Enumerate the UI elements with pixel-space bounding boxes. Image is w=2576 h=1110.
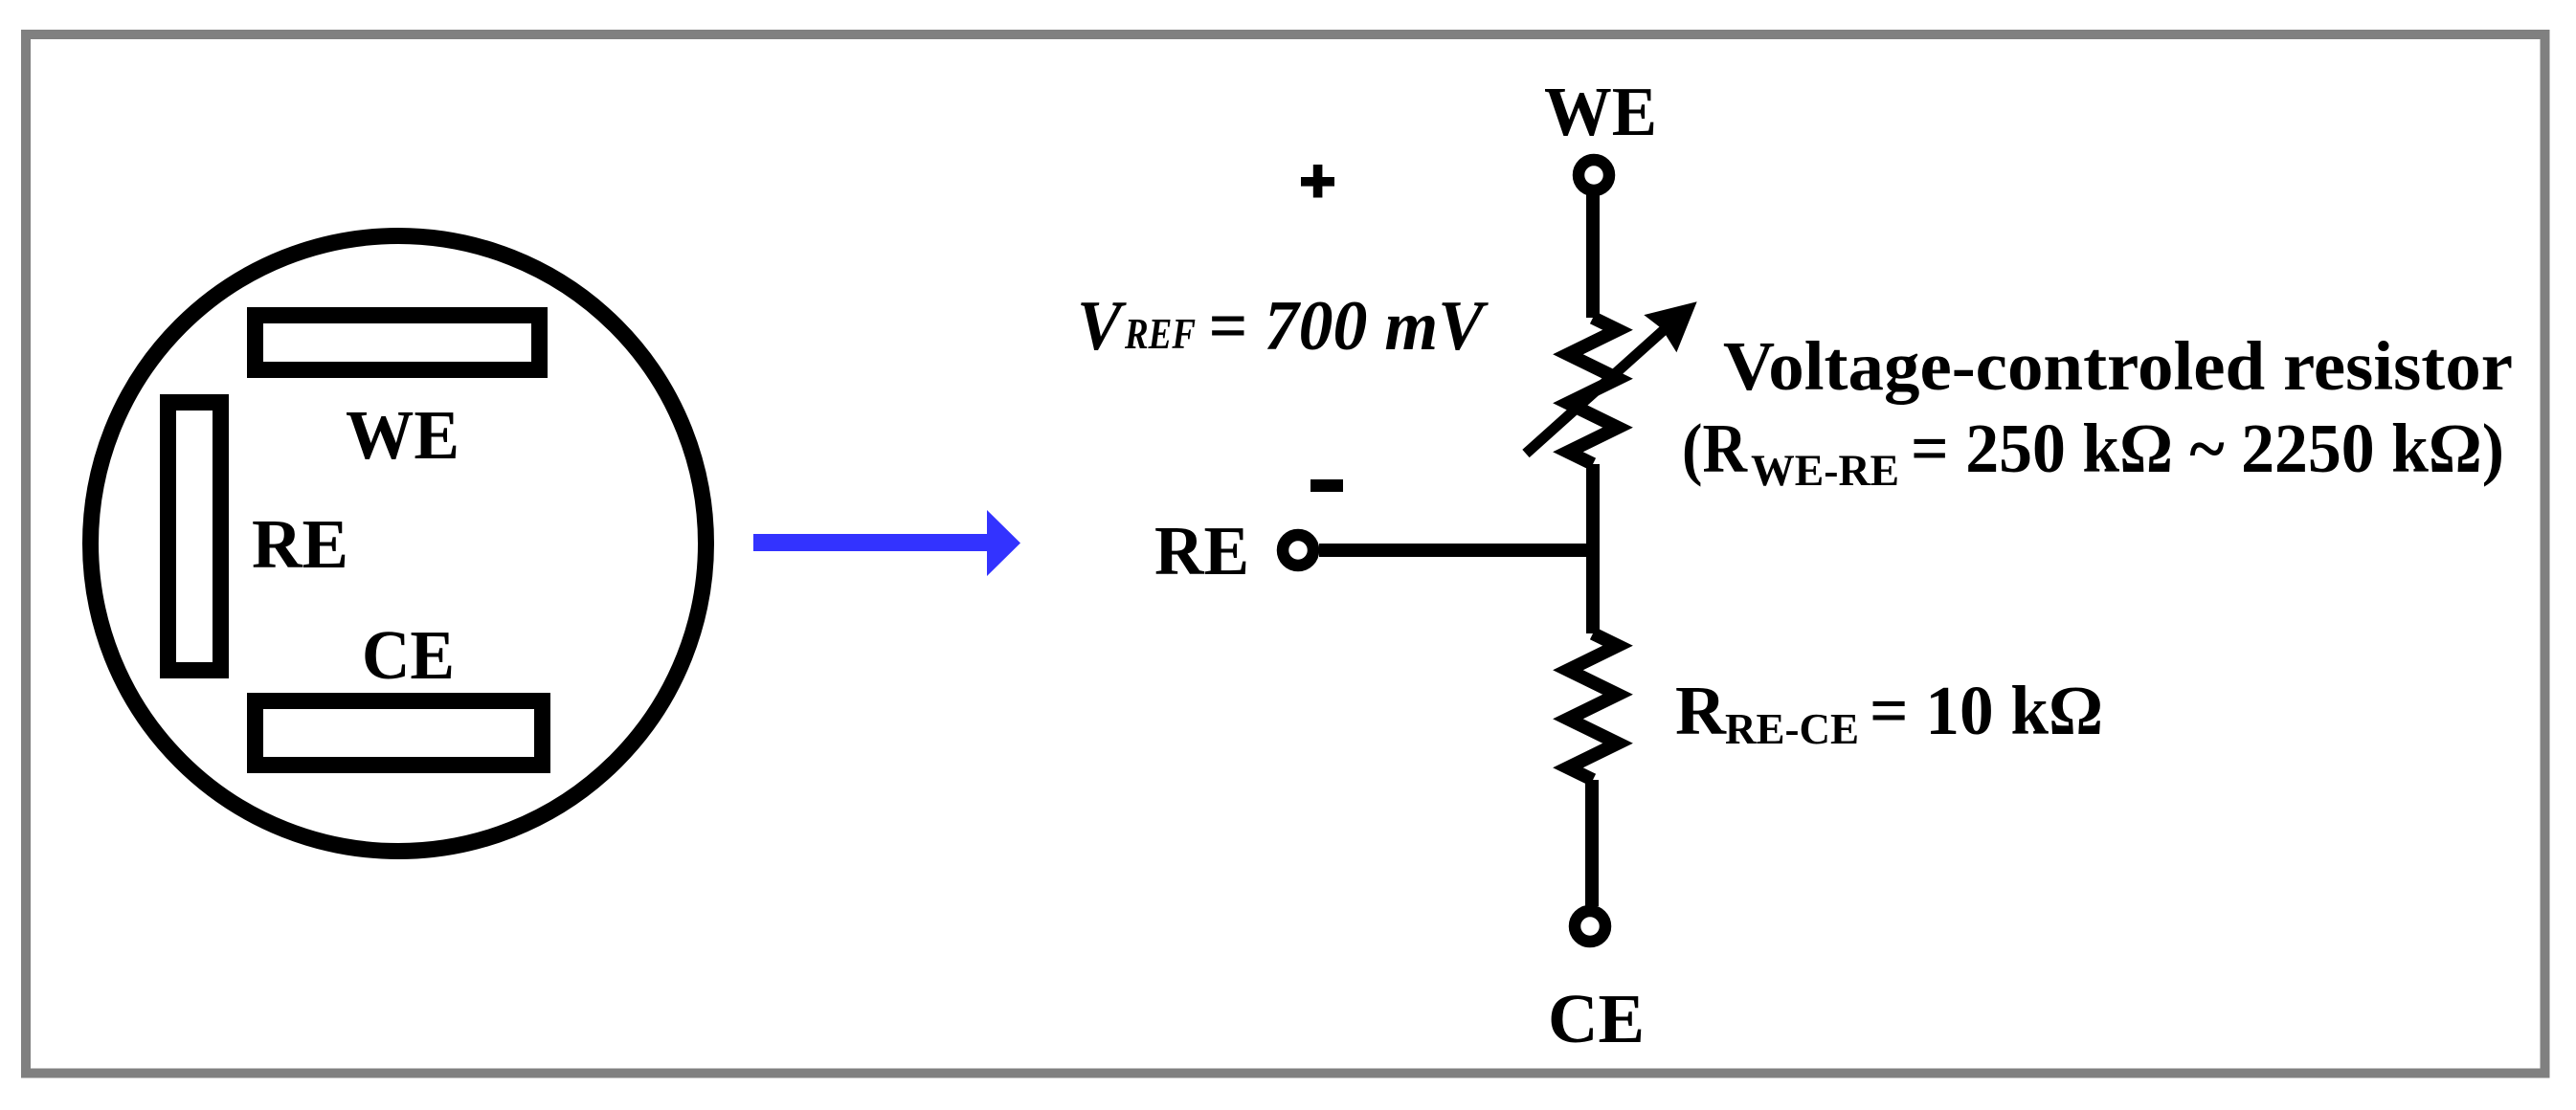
sensor body (gas sensor top view, circle) [91, 236, 706, 852]
svg-text:= 700 mV: = 700 mV [1208, 287, 1489, 366]
svg-text:= 10 kΩ: = 10 kΩ [1870, 672, 2103, 749]
svg-text:RE-CE: RE-CE [1725, 705, 1859, 753]
variable resistor RWE-RE (zigzag) [1568, 318, 1618, 464]
svg-text:R: R [1675, 672, 1727, 749]
label: RRE-CE = 10 kOhm [1675, 672, 2103, 753]
wire WE terminal to variable resistor [1586, 190, 1600, 318]
svg-text:REF: REF [1124, 309, 1196, 358]
wire variable resistor to junction to RRE-CE [1586, 464, 1600, 633]
svg-text:WE: WE [346, 396, 459, 474]
plus sign (VREF polarity) [1301, 165, 1334, 198]
svg-text:WE: WE [1544, 73, 1657, 150]
minus sign (VREF polarity) [1310, 479, 1343, 492]
electrode RE (left rectangle) [168, 403, 221, 671]
resistor RRE-CE (zigzag) [1568, 633, 1618, 780]
wire RRE-CE to CE terminal [1585, 780, 1599, 906]
svg-text:(R: (R [1682, 410, 1748, 487]
svg-text:= 250 kΩ ~ 2250 kΩ): = 250 kΩ ~ 2250 kΩ) [1911, 410, 2504, 487]
control arrow through variable resistor [1526, 301, 1697, 454]
terminal CE (open circle) [1575, 911, 1605, 942]
terminal WE (open circle) [1579, 160, 1609, 190]
label: (RWE-RE = 250 kOhm ~ 2250 kOhm) [1682, 410, 2504, 496]
svg-text:Voltage-controled resistor: Voltage-controled resistor [1723, 327, 2513, 405]
svg-text:WE-RE: WE-RE [1751, 446, 1899, 496]
terminal RE (open circle) [1283, 535, 1313, 566]
label VREF = 700 mV [1077, 287, 1489, 366]
electrode WE (top rectangle) [256, 316, 540, 370]
svg-text:CE: CE [1548, 980, 1645, 1057]
electrode CE (bottom rectangle) [256, 701, 543, 766]
svg-text:RE: RE [1154, 512, 1249, 589]
svg-text:CE: CE [362, 616, 455, 694]
wire RE terminal to junction [1319, 544, 1600, 557]
svg-text:V: V [1077, 287, 1127, 366]
svg-text:RE: RE [252, 505, 348, 583]
arrow (sensor to equivalent circuit, blue) [753, 510, 1020, 576]
